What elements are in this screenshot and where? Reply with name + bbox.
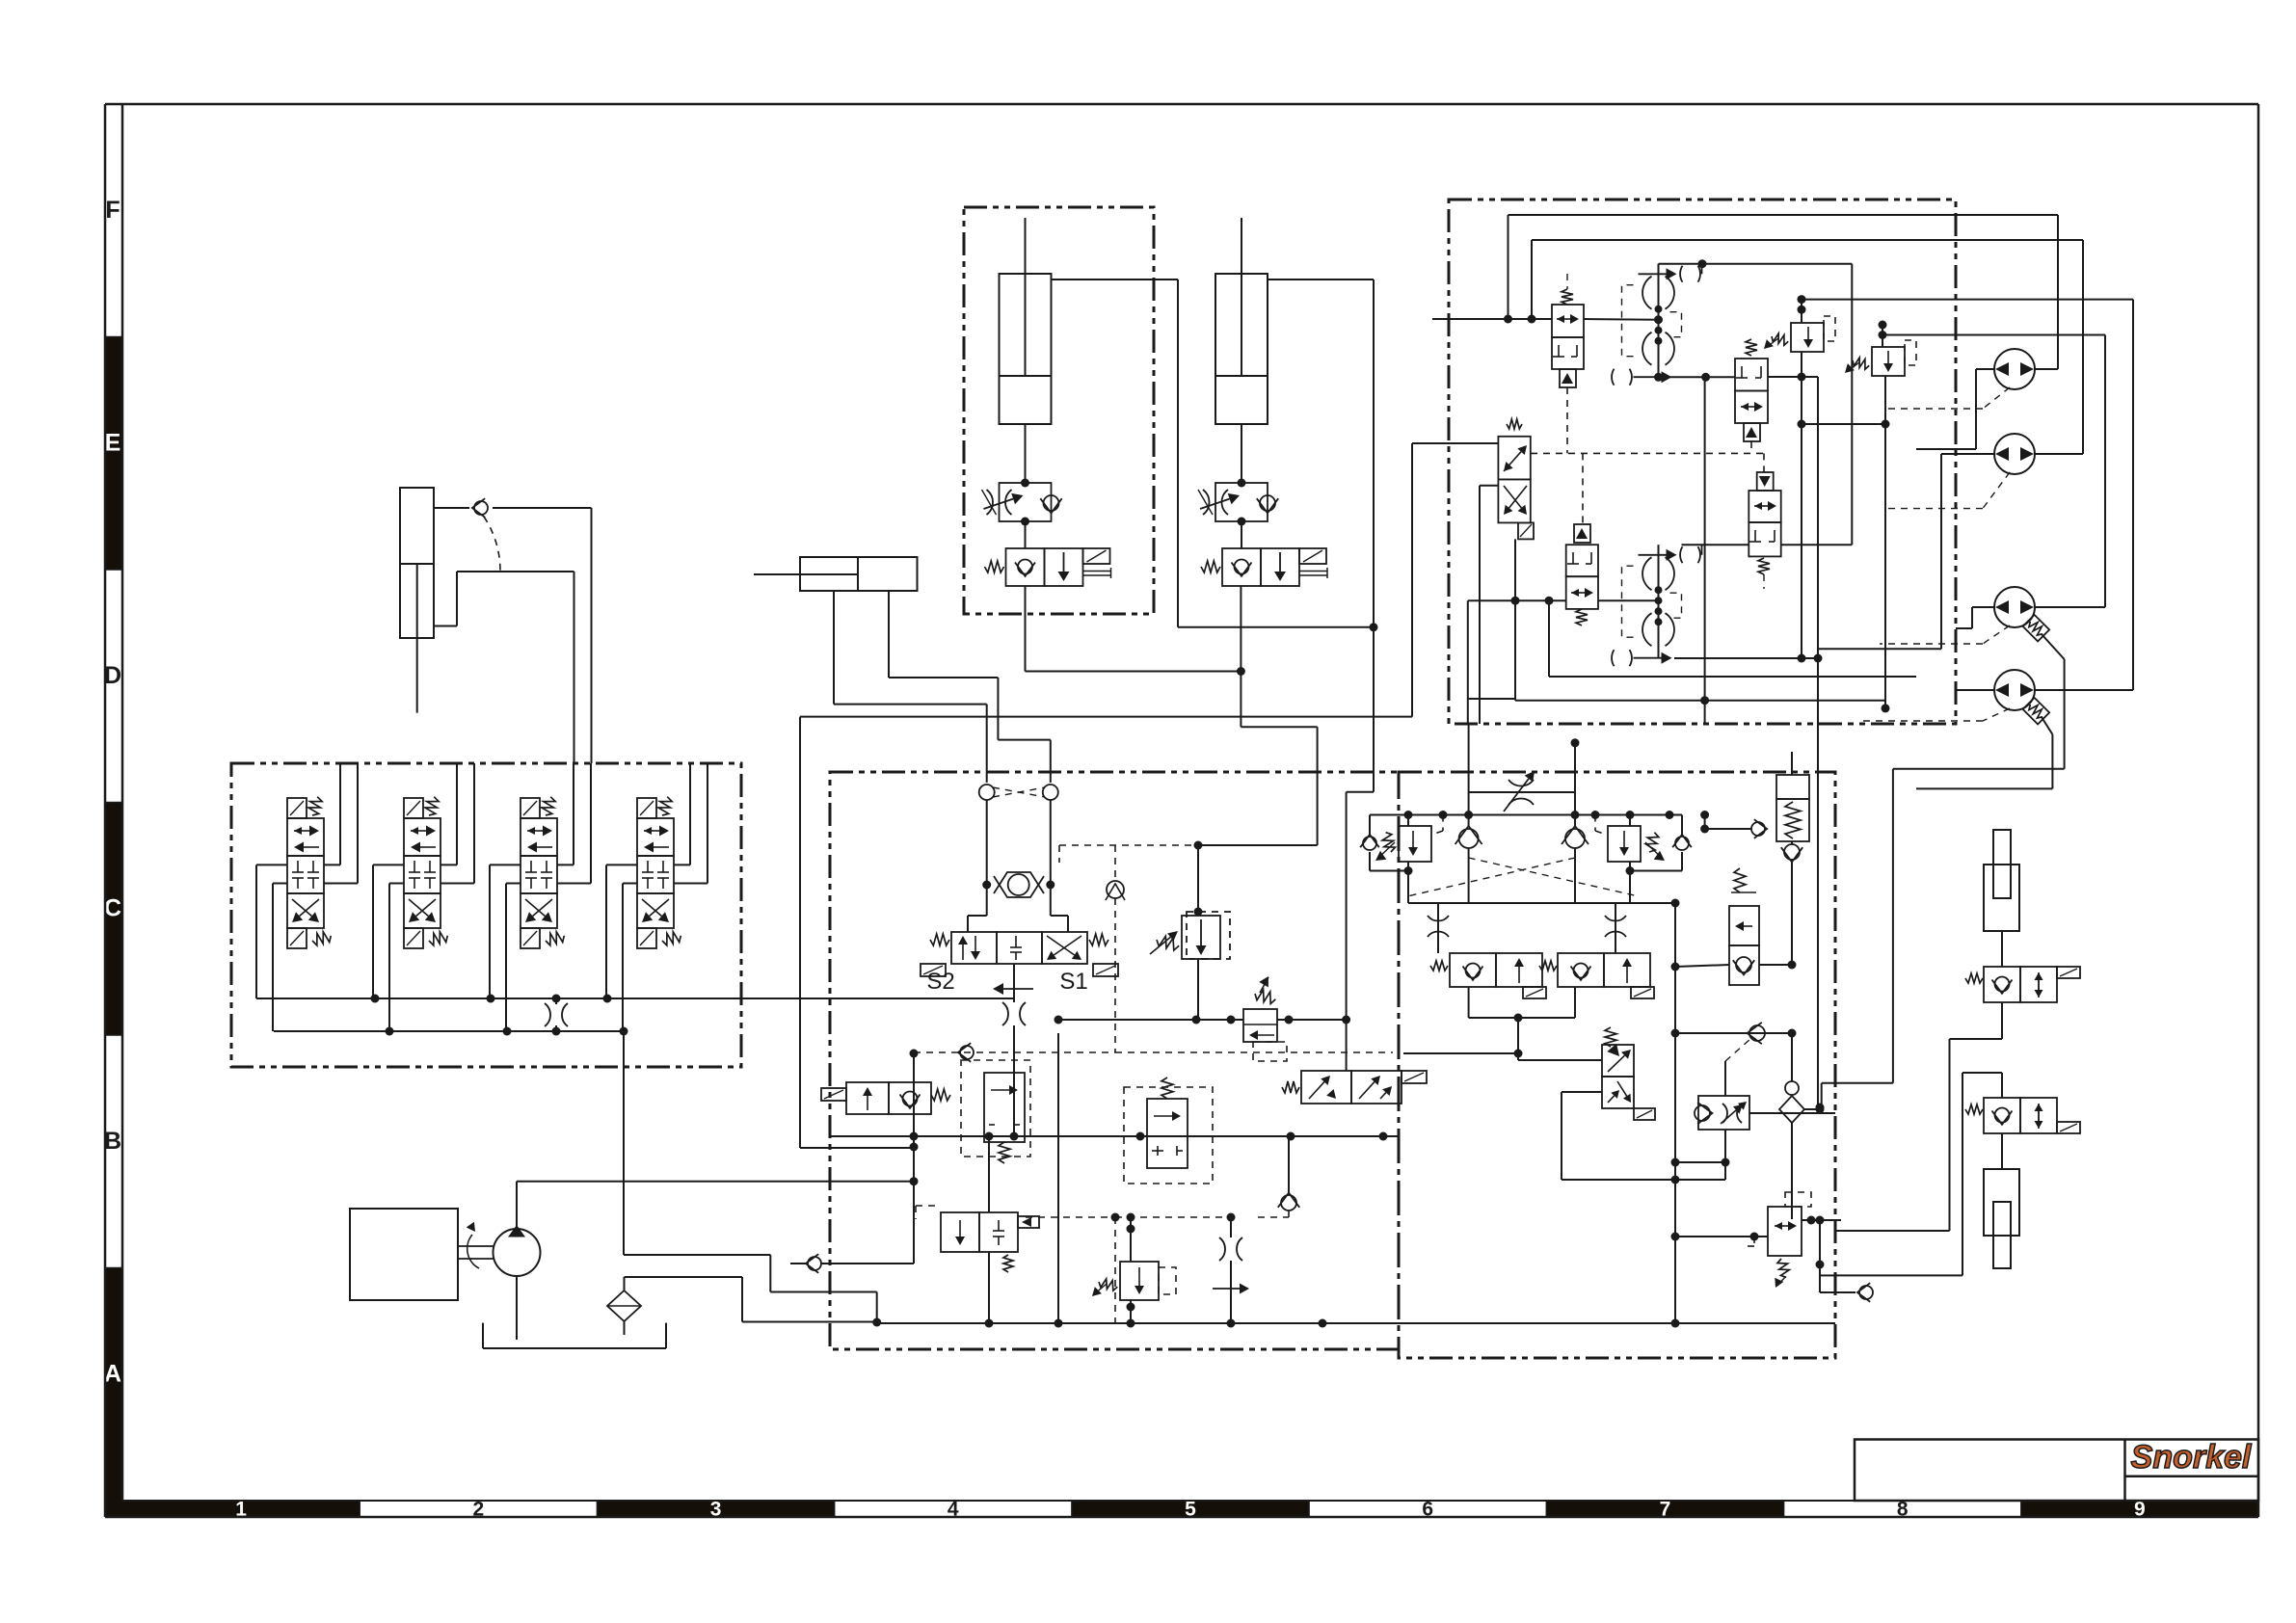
check bottom right bbox=[1819, 1264, 1821, 1292]
bank T drop to filter bbox=[623, 1031, 625, 1255]
border frame bbox=[105, 337, 122, 571]
svg-text:B: B bbox=[104, 1128, 121, 1155]
manifold top ports bbox=[979, 785, 995, 800]
wire cyl1 valve out bbox=[1025, 586, 1027, 672]
cylinder CYL2 bbox=[1215, 274, 1268, 376]
solenoid valve A (3/2) bbox=[1450, 953, 1496, 987]
pilot-to-open check mid bbox=[1729, 906, 1759, 945]
spool drain arrow + orifice below S-valve bbox=[1013, 964, 1015, 1002]
enclosure: outrigger manifold box bbox=[1399, 772, 1835, 1358]
verticals 1738 bbox=[1674, 903, 1676, 1180]
solenoid valve CYL2-SV bbox=[1241, 521, 1242, 548]
orifice with arrow bottom bbox=[1227, 1213, 1236, 1222]
pump suction bbox=[516, 1276, 518, 1340]
solenoid valve R1 bbox=[1984, 967, 2020, 1002]
pilot dashed steer bbox=[484, 517, 500, 572]
enclosure: main manifold box bbox=[830, 772, 1399, 1349]
title block bbox=[1855, 1440, 2258, 1502]
relief with spring right column bbox=[1791, 752, 1793, 775]
drive: relief RV-A bbox=[1798, 295, 1806, 304]
wires R2 bbox=[2001, 1073, 2003, 1098]
bypass check right bbox=[1681, 815, 1683, 836]
brake line M4 bbox=[2042, 717, 2052, 734]
relief bottom center bbox=[1127, 1213, 1135, 1222]
bank orifice bridge bbox=[555, 998, 557, 1004]
shuttle double check bbox=[1779, 1096, 1804, 1123]
wire cyl1 rod port bbox=[1052, 279, 1179, 280]
svg-text:E: E bbox=[105, 429, 121, 456]
variable orifice top bbox=[1469, 791, 1575, 793]
center bottom bus bbox=[873, 1322, 1835, 1324]
drive: relief RV-B bbox=[1879, 321, 1887, 330]
drive: PV3 valve lower left bbox=[1566, 545, 1598, 576]
wires bottom-left solenoid bbox=[988, 1136, 990, 1212]
risers B5 to drive box bbox=[1468, 724, 1470, 772]
svg-text:F: F bbox=[105, 197, 120, 224]
solenoid valve left (2/2 NO) bbox=[846, 1082, 889, 1114]
vertical 1098 down bbox=[1057, 1033, 1059, 1323]
counterbalance RV2 (mid right) bbox=[1055, 1016, 1063, 1024]
motor feed lines left bbox=[1976, 368, 1994, 370]
drive: rail under top cluster bbox=[1659, 376, 1736, 378]
wires right col down bbox=[1674, 1180, 1676, 1323]
center manifold pilot dashed horizontals bbox=[914, 1051, 1115, 1053]
drive: 2-pos valve DV1 bbox=[1504, 315, 1512, 324]
wires steer to bank bbox=[591, 508, 593, 763]
compensator pair (center) bbox=[984, 1073, 1025, 1142]
drive: left 3-way valve LV bbox=[1498, 437, 1530, 480]
return plumbing bbox=[624, 1254, 770, 1256]
dashed pilot top bbox=[1059, 844, 1198, 846]
svg-text:A: A bbox=[104, 1360, 121, 1387]
wires V2 ports bbox=[373, 864, 404, 865]
drive: PV1 valve bbox=[1735, 359, 1768, 391]
wires R1 bbox=[2001, 1002, 2003, 1039]
pump bbox=[458, 1245, 494, 1247]
wires lower 3/2 bbox=[1517, 1053, 1519, 1060]
drive: dashed pilot bus bbox=[1531, 452, 1764, 454]
flow control w check (right) bbox=[1698, 1096, 1749, 1130]
valve V2 4/3 bank section bbox=[404, 798, 423, 818]
flow control w/ check CYL1-FC bbox=[1025, 424, 1027, 483]
engine box bbox=[350, 1209, 458, 1300]
crossed pilot dashed bbox=[1469, 858, 1639, 896]
bypass check left bbox=[1369, 815, 1371, 836]
pilot check on dashed (center) bbox=[1107, 881, 1124, 898]
supply from pump into manifolds bbox=[913, 1053, 915, 1264]
valve V3 4/3 bank section bbox=[521, 798, 540, 818]
tank bbox=[482, 1323, 484, 1348]
enclosure: drive manifold box bbox=[1449, 200, 1956, 724]
motor M1 bbox=[1994, 349, 2035, 389]
cylinder steer bbox=[400, 488, 434, 564]
wires below solenoid valves bbox=[1468, 987, 1470, 1018]
wire rod-port junction bbox=[1178, 626, 1374, 628]
check valve on pilot (bottom right of center) bbox=[1281, 1195, 1296, 1211]
flow divider cluster bbox=[1658, 545, 1660, 657]
motor case drain dashed bbox=[1983, 387, 2010, 409]
svg-text:Snorkel: Snorkel bbox=[2131, 1439, 2253, 1476]
drive: PV3 rail bbox=[1468, 599, 1566, 601]
wires horiz cyl ports bbox=[833, 591, 835, 705]
check on 1072 rail bbox=[1675, 1032, 1792, 1034]
check valve steer bbox=[434, 507, 469, 509]
relief valve RV1 (upper right of center box) bbox=[1194, 841, 1203, 850]
enclosure: platform cylinder box bbox=[964, 207, 1154, 614]
wires V3 ports bbox=[490, 864, 521, 865]
top rail bbox=[1370, 814, 1682, 816]
drive: PV2 valve bbox=[1682, 544, 1749, 545]
brake line M3 bbox=[2042, 634, 2065, 659]
shuttle check center bbox=[986, 872, 988, 897]
counterbalance left bbox=[1399, 826, 1431, 862]
motor M2 bbox=[1994, 434, 2035, 474]
center bus horizontal bbox=[830, 1135, 1399, 1137]
motor M4 bbox=[1994, 670, 2035, 710]
relief bottom right bbox=[1768, 1207, 1802, 1256]
check left mid bbox=[1459, 829, 1479, 848]
wires left solenoid bbox=[913, 1053, 915, 1082]
check right mid bbox=[1565, 829, 1585, 848]
bank bus T bbox=[274, 1030, 624, 1032]
svg-text:S2: S2 bbox=[926, 969, 954, 995]
solenoid valve R2 bbox=[1984, 1098, 2020, 1133]
mid rail bbox=[1408, 902, 1675, 904]
solenoid valve B (3/2) bbox=[1558, 953, 1604, 987]
wires ptoc bbox=[1675, 965, 1729, 967]
svg-text:C: C bbox=[104, 894, 121, 921]
solenoid valve CYL1-SV bbox=[1025, 521, 1027, 548]
valve V1 4/3 bank section bbox=[287, 798, 307, 818]
3/2 valve lower (with spring top) bbox=[1605, 1027, 1616, 1047]
drive: cluster bottom rail bbox=[1674, 657, 1818, 659]
filter bbox=[607, 1290, 641, 1321]
wires V1 ports bbox=[256, 864, 287, 865]
flow control w/ check CYL2-FC bbox=[1241, 424, 1242, 483]
cylinder small bottom bbox=[2001, 1133, 2003, 1169]
enclosure: valve bank box bbox=[231, 763, 741, 1067]
motor M3 bbox=[1994, 587, 2035, 627]
pinch orifices bbox=[1437, 903, 1439, 953]
counterbalance right bbox=[1608, 826, 1641, 862]
drive: feed RV risers bbox=[1802, 299, 2133, 301]
3/2 solenoid valve right of center bbox=[1301, 1071, 1351, 1104]
check valve into manifold bbox=[790, 1263, 808, 1264]
pump outlet bbox=[516, 1182, 518, 1229]
wire cyl2 rod port bbox=[1268, 279, 1375, 280]
bank bus P bbox=[256, 998, 1014, 999]
wire brake-supply staircase (left) bbox=[799, 717, 801, 1148]
cylinder small top bbox=[1984, 865, 2019, 931]
svg-text:D: D bbox=[104, 662, 121, 689]
svg-text:S1: S1 bbox=[1059, 969, 1087, 995]
cylinder CYL1 bbox=[1000, 274, 1052, 376]
motor wires bbox=[2035, 368, 2058, 370]
top cluster bypass connection bbox=[1659, 263, 1853, 265]
wire cyl2 valve down bbox=[1240, 586, 1241, 727]
drive: bottom rail bbox=[1469, 698, 1515, 700]
S1 S2 valve (4/3) bbox=[986, 897, 988, 916]
flow divider cluster bbox=[1658, 264, 1660, 377]
valve V4 4/3 bank section bbox=[637, 798, 656, 818]
cylinder horizontal bbox=[800, 557, 858, 591]
wires V4 ports bbox=[606, 864, 637, 865]
drive: top feed lines bbox=[1508, 214, 2059, 216]
2/2 solenoid bottom left of center bbox=[941, 1212, 979, 1252]
